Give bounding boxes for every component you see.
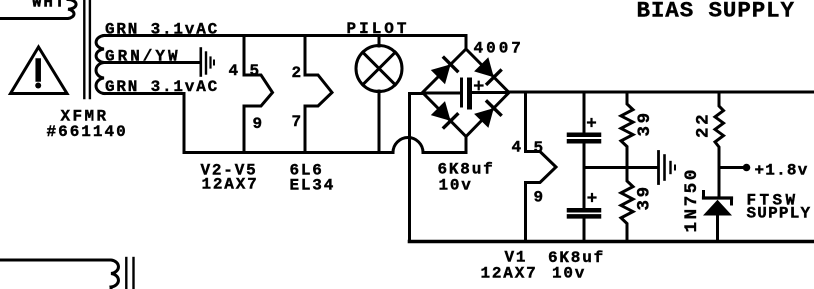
svg-text:PILOT: PILOT [347, 20, 410, 38]
svg-text:GRN 3.1vAC: GRN 3.1vAC [105, 78, 219, 96]
svg-text:#661140: #661140 [47, 123, 128, 141]
svg-text:SUPPLY: SUPPLY [747, 205, 812, 223]
svg-text:4: 4 [512, 139, 523, 157]
svg-text:WHT: WHT [32, 0, 66, 12]
svg-text:5: 5 [250, 62, 261, 80]
svg-text:GRN 3.1vAC: GRN 3.1vAC [105, 21, 219, 39]
svg-text:7: 7 [292, 113, 303, 131]
svg-text:4007: 4007 [474, 40, 524, 58]
svg-text:10v: 10v [552, 265, 586, 283]
svg-text:BIAS SUPPLY: BIAS SUPPLY [637, 0, 795, 24]
svg-text:9: 9 [253, 115, 264, 133]
svg-text:39: 39 [635, 110, 655, 136]
svg-text:5: 5 [534, 139, 545, 157]
svg-text:EL34: EL34 [290, 177, 336, 195]
svg-text:22: 22 [694, 112, 714, 138]
svg-text:9: 9 [534, 189, 545, 207]
svg-text:12AX7: 12AX7 [202, 176, 259, 194]
svg-text:12AX7: 12AX7 [481, 265, 538, 283]
svg-text:10v: 10v [439, 177, 473, 195]
svg-text:2: 2 [292, 64, 303, 82]
svg-text:39: 39 [635, 184, 655, 210]
svg-text:+1.8v: +1.8v [755, 162, 809, 180]
svg-text:1N750: 1N750 [682, 167, 702, 233]
svg-text:4: 4 [229, 62, 240, 80]
svg-text:GRN/YW: GRN/YW [105, 48, 181, 66]
